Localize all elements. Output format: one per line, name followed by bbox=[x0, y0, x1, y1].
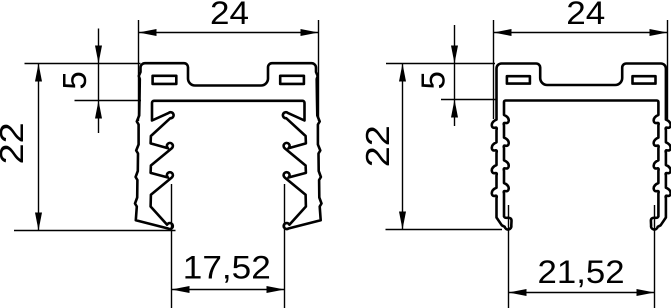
ext line 24 right (P1) bbox=[318, 20, 320, 121]
arrow 24 right (P1) bbox=[301, 29, 319, 36]
svg-text:5: 5 bbox=[56, 71, 93, 89]
arrow 21,52 left (P2) bbox=[509, 289, 527, 296]
arrow 22 bottom (P2) points down bbox=[399, 212, 406, 230]
ext line 21,52 right (P2) bbox=[654, 205, 656, 308]
hole rect right (P2) bbox=[633, 76, 656, 83]
arrow 5 bottom (P1) points up bbox=[95, 101, 102, 119]
svg-text:17,52: 17,52 bbox=[183, 249, 271, 285]
ext line 5 bottom (P2) bbox=[441, 99, 497, 101]
arrow 5 top (P2) points down bbox=[451, 46, 458, 64]
svg-text:5: 5 bbox=[414, 71, 451, 89]
arrow 22 bottom (P1) points down bbox=[35, 213, 42, 231]
hole rect left (P1) bbox=[153, 76, 177, 84]
ext line 5 bottom (P1) bbox=[75, 100, 142, 102]
arrow 22 top (P2) points up bbox=[399, 64, 406, 82]
arrow 24 left (P2) bbox=[494, 29, 512, 36]
dim line 22 (P2) bbox=[402, 64, 404, 230]
profile P1 outline bbox=[135, 63, 322, 229]
arrow 24 left (P1) bbox=[139, 29, 157, 36]
hole rect right (P1) bbox=[280, 76, 304, 84]
dim line 5 (P2) bbox=[454, 25, 456, 126]
svg-text:24: 24 bbox=[210, 0, 249, 31]
ext line 22 bottom (P2) bbox=[386, 229, 503, 231]
arrow 21,52 right (P2) bbox=[637, 289, 655, 296]
ext line 24 left (P2) bbox=[493, 20, 495, 119]
dim line 21,52 (P2) bbox=[509, 292, 654, 294]
arrow 17,52 left (P1) bbox=[172, 286, 190, 293]
svg-text:21,52: 21,52 bbox=[538, 254, 625, 290]
dim line 5 (P1) bbox=[98, 29, 100, 134]
dim line 22 (P1) bbox=[38, 64, 40, 231]
ext line 17,52 left (P1) bbox=[171, 184, 173, 308]
svg-text:22: 22 bbox=[359, 125, 396, 167]
ext line top shared 5/22 (P2) bbox=[386, 63, 495, 65]
ext line top shared 5/22 (P1) bbox=[25, 63, 141, 65]
dim line 17,52 (P1) bbox=[172, 289, 284, 291]
profile P2 outline bbox=[492, 64, 671, 230]
ext line 21,52 left (P2) bbox=[508, 205, 510, 308]
arrow 17,52 right (P1) bbox=[267, 286, 285, 293]
arrow 24 right (P2) bbox=[650, 29, 668, 36]
dim line 24 (P1) bbox=[139, 32, 318, 34]
ext line 24 left (P1) bbox=[138, 20, 140, 121]
ext line 17,52 right (P1) bbox=[284, 184, 286, 308]
hole rect left (P2) bbox=[507, 76, 530, 83]
ext line 22 bottom (P1) bbox=[14, 230, 176, 232]
svg-text:22: 22 bbox=[0, 122, 30, 164]
ext line 24 right (P2) bbox=[667, 20, 669, 119]
arrow 5 bottom (P2) points up bbox=[451, 100, 458, 118]
arrow 5 top (P1) points down bbox=[95, 46, 102, 64]
svg-text:24: 24 bbox=[566, 0, 605, 31]
dim line 24 (P2) bbox=[494, 32, 667, 34]
arrow 22 top (P1) points up bbox=[35, 64, 42, 82]
